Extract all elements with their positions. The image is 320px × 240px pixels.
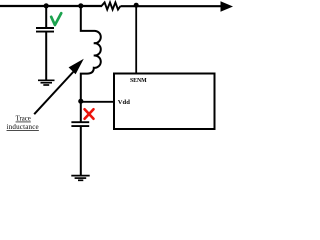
- annotation arrow line: [34, 70, 75, 114]
- green check mark: [51, 13, 61, 25]
- annotation arrowhead: [69, 59, 84, 74]
- wire C2 bottom lead: [80, 127, 82, 176]
- wire top rail right segment: [121, 5, 223, 7]
- svg-text:SENM: SENM: [130, 78, 147, 84]
- node junction dot at C1 top: [44, 3, 49, 8]
- node junction dot at Vdd net: [78, 99, 83, 104]
- node junction dot at L1 top: [78, 3, 83, 8]
- arrowhead output: [221, 1, 234, 12]
- wire Vdd pin: [81, 101, 114, 103]
- svg-text:Trace: Trace: [16, 116, 31, 123]
- capacitor C2 top plate: [71, 121, 89, 123]
- svg-text:Vdd: Vdd: [118, 99, 130, 106]
- wire SENM top pin: [135, 6, 137, 73]
- capacitor C1 top plate: [36, 27, 54, 29]
- wire C2 top lead: [80, 102, 82, 122]
- IC U1 SENM box: [114, 74, 215, 130]
- wire top rail left segment: [0, 5, 102, 7]
- wire C1 top lead: [45, 6, 47, 28]
- resistor R1: [102, 2, 121, 9]
- inductor L1 trace inductance: [81, 6, 101, 101]
- capacitor C2 bottom plate: [71, 125, 89, 127]
- capacitor C1 bottom plate: [36, 31, 54, 33]
- red X mark: [85, 109, 94, 119]
- node junction dot at SENM top pin: [134, 3, 139, 8]
- ground symbol under C2: [71, 176, 89, 181]
- ground symbol under C1: [38, 80, 55, 85]
- wire C1 bottom lead: [45, 32, 47, 80]
- svg-text:inductance: inductance: [7, 123, 39, 131]
